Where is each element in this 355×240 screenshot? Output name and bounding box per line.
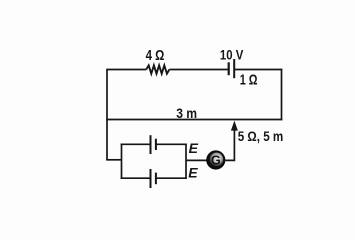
wire bottom branch right segment: [156, 177, 187, 179]
svg-text:G: G: [211, 154, 221, 168]
svg-text:4 Ω: 4 Ω: [146, 48, 165, 64]
svg-text:E: E: [189, 140, 199, 156]
cell E top short plate: [155, 139, 157, 150]
cell E top long plate: [150, 135, 152, 154]
wire left vertical: [106, 69, 108, 160]
wire right vertical: [281, 69, 283, 121]
battery 10V short plate: [228, 62, 230, 75]
resistor 4 ohm zigzag: [146, 65, 169, 73]
wire galvanometer to jockey: [225, 130, 234, 160]
cell E bottom short plate: [155, 173, 157, 185]
wire jog to cell branch: [106, 159, 121, 161]
wire top-right segment: [234, 69, 282, 71]
wire top-middle segment: [169, 69, 228, 71]
wire top branch right segment: [156, 143, 187, 145]
wire to galvanometer: [186, 159, 207, 161]
svg-text:3 m: 3 m: [176, 105, 197, 121]
potentiometer wire 3 m: [106, 119, 282, 121]
cell E bottom long plate: [150, 169, 152, 188]
battery 10V long plate: [233, 59, 235, 78]
svg-text:1 Ω: 1 Ω: [240, 72, 258, 88]
svg-text:E: E: [188, 165, 198, 181]
svg-text:5 Ω, 5 m: 5 Ω, 5 m: [238, 129, 284, 144]
wire cell-loop left vertical: [121, 144, 123, 180]
galvanometer G: [206, 150, 225, 169]
svg-text:10 V: 10 V: [220, 47, 243, 62]
wire bottom branch left segment: [121, 177, 151, 179]
wire top branch left segment: [121, 143, 151, 145]
wire top-left segment: [107, 69, 146, 71]
jockey arrow to 3 m wire: [231, 121, 238, 131]
wire cell-loop right vertical: [185, 144, 187, 180]
